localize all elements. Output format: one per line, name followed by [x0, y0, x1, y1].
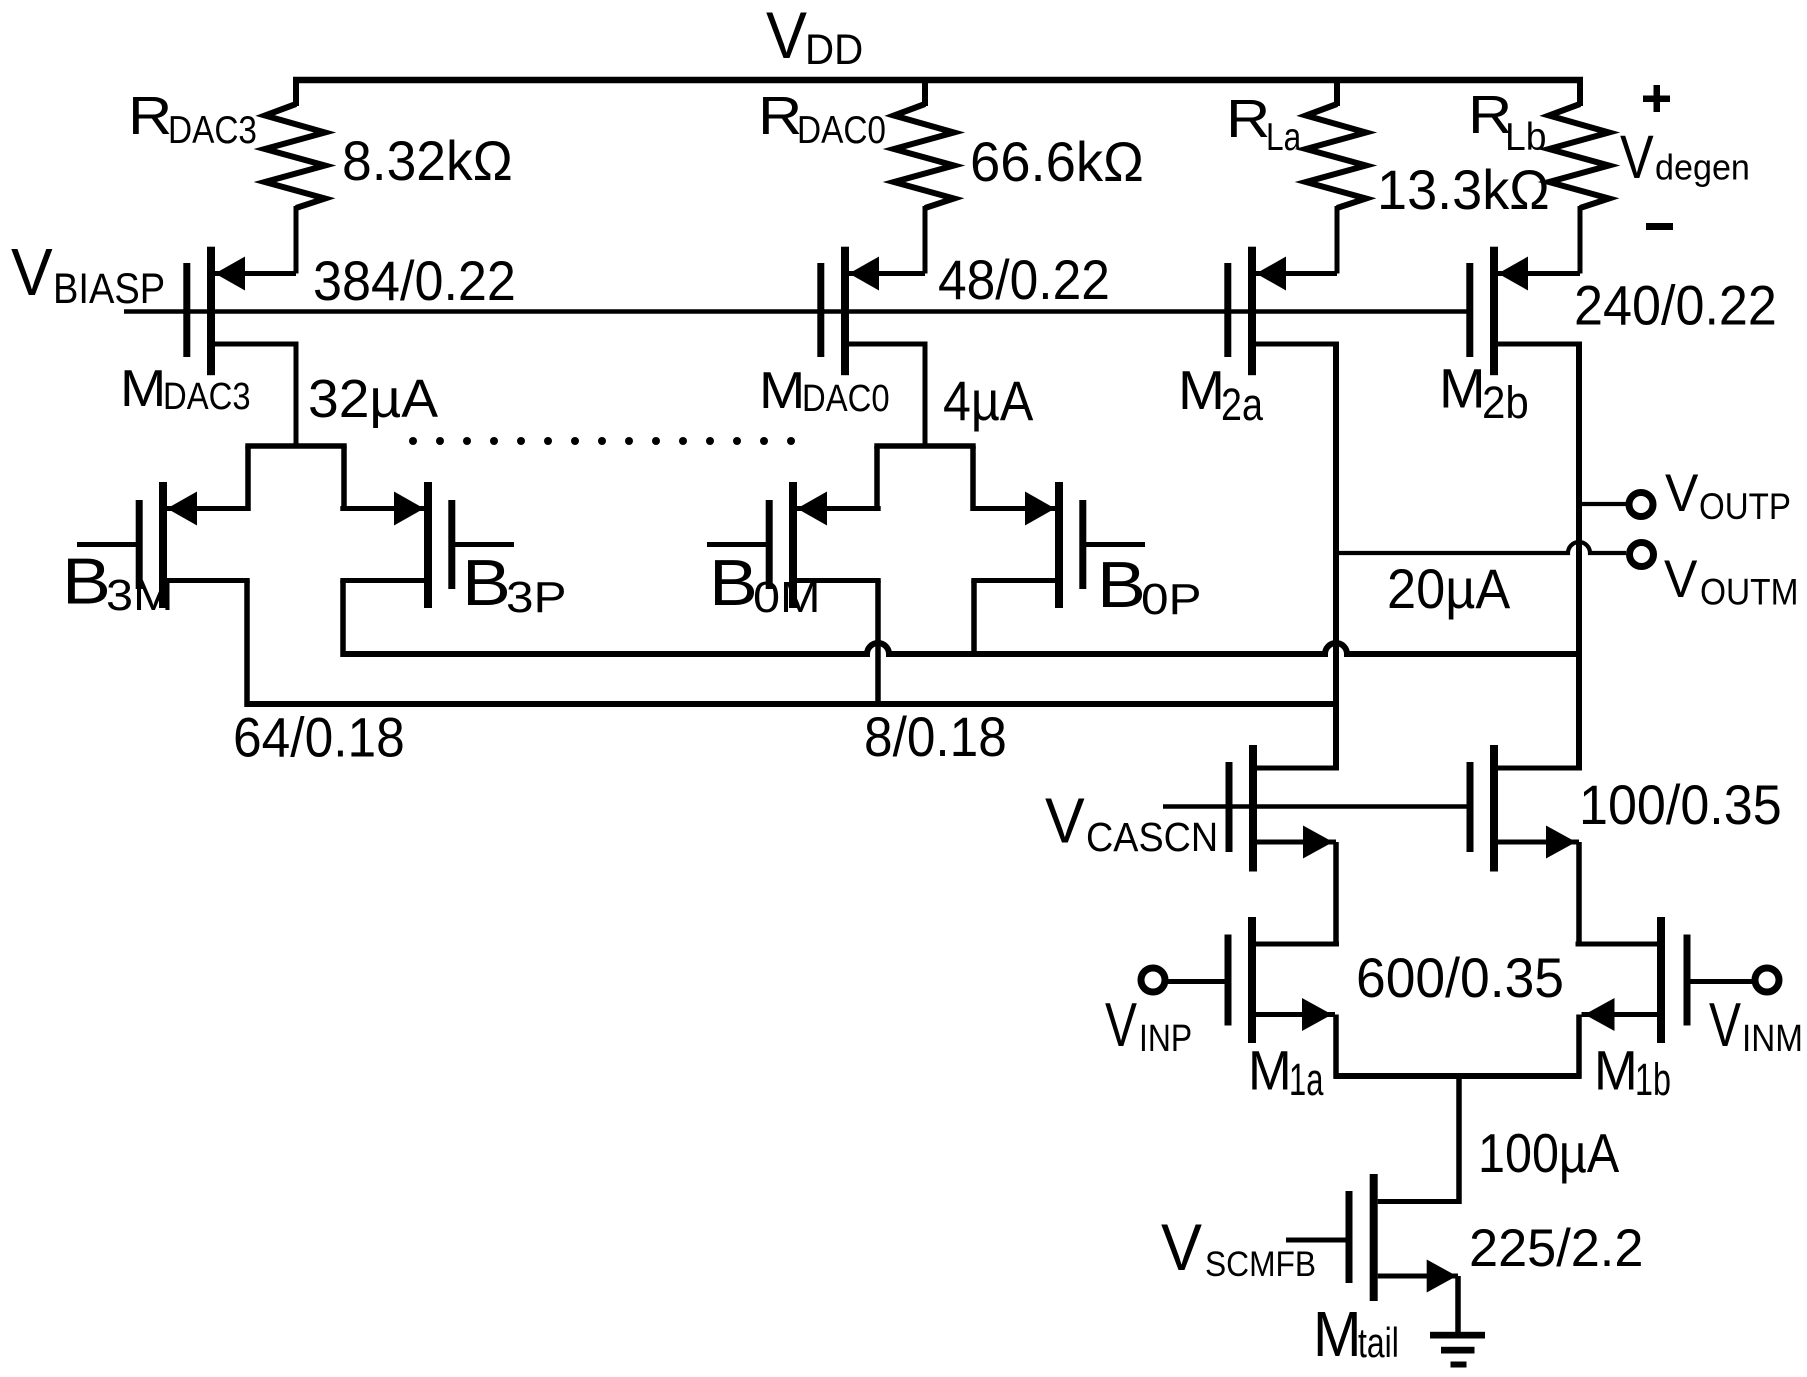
wire M1b source to tail bus [1576, 1015, 1582, 1079]
svg-text:4µA: 4µA [943, 369, 1034, 432]
svg-text:32µA: 32µA [308, 369, 438, 429]
terminal VINP [1141, 968, 1165, 992]
svg-text:La: La [1266, 116, 1301, 159]
transistor Mtail size 225/2.2 [1469, 1219, 1643, 1278]
net VCASCN label [1045, 785, 1218, 861]
svg-text:V: V [1665, 464, 1699, 523]
svg-text:384/0.22: 384/0.22 [313, 249, 516, 312]
svg-text:R: R [1226, 89, 1270, 149]
transistor M2a label [1178, 359, 1264, 430]
svg-text:240/0.22: 240/0.22 [1574, 274, 1777, 337]
transistor B3M label [62, 545, 174, 621]
svg-text:V: V [1709, 991, 1741, 1060]
transistor B0M label [709, 546, 821, 622]
svg-text:64/0.18: 64/0.18 [233, 706, 405, 769]
node VDD supply rail [293, 77, 1583, 84]
current label 32uA [308, 369, 438, 429]
transistor Mtail label [1313, 1298, 1399, 1370]
ground [1430, 1332, 1485, 1368]
wire MDAC3 drain to switch pair 3 node [245, 344, 346, 511]
resistor RLa label [1226, 89, 1301, 159]
terminal VOUTP [1629, 493, 1653, 517]
cascode size 100/0.35 [1579, 773, 1782, 836]
svg-text:V: V [1161, 1210, 1202, 1284]
svg-text:V: V [1664, 550, 1698, 609]
transistor M1a label [1248, 1038, 1324, 1105]
svg-text:OUTM: OUTM [1700, 572, 1799, 613]
node Vdegen plus sign [1643, 96, 1670, 103]
transistor MDAC0 label [759, 362, 890, 420]
transistor M1b label [1594, 1038, 1671, 1105]
wire tail bus [1334, 1073, 1582, 1079]
transistor cascode right (NMOS) [1467, 745, 1583, 872]
node VOUTP label [1665, 464, 1791, 527]
transistor cascode left (NMOS) [1226, 745, 1340, 872]
terminal VINM [1755, 968, 1779, 992]
transistor M2b label [1439, 357, 1529, 429]
svg-text:2b: 2b [1482, 377, 1529, 428]
resistor RDAC0 value 66.6k [970, 130, 1144, 193]
resistor RDAC0 label [758, 86, 886, 152]
svg-text:48/0.22: 48/0.22 [938, 248, 1110, 311]
wire cascode right source to M1b drain [1576, 842, 1582, 947]
net VCASCN gate rail [1163, 804, 1467, 809]
wire M1a source to tail bus [1333, 1015, 1339, 1079]
svg-text:V: V [766, 0, 807, 72]
transistor B0P (PMOS switch) [971, 482, 1145, 608]
transistor B3P (PMOS switch) [340, 482, 514, 608]
svg-text:V: V [1620, 123, 1654, 191]
transistor MDAC3 size 384/0.22 [313, 249, 516, 312]
svg-text:1a: 1a [1289, 1054, 1324, 1105]
svg-text:B: B [62, 545, 111, 618]
node VINM label [1709, 991, 1803, 1060]
svg-text:13.3kΩ: 13.3kΩ [1377, 158, 1550, 221]
wire VOUTP tap [1579, 502, 1626, 506]
net VSCMFB label [1161, 1210, 1316, 1284]
resistor RLa [1306, 77, 1366, 274]
current label 100uA [1478, 1122, 1619, 1184]
current label 4uA [943, 369, 1034, 432]
node VINP label [1105, 991, 1192, 1060]
wire M1b gate to VINM [1691, 979, 1753, 984]
input pair size 600/0.35 [1356, 946, 1564, 1009]
svg-text:3P: 3P [506, 573, 567, 622]
wire VOUTM tap with hop over M2b column [1336, 542, 1626, 553]
svg-text:DAC0: DAC0 [802, 378, 890, 420]
switch pair 3 size 64/0.18 [233, 706, 405, 769]
svg-text:0P: 0P [1141, 575, 1202, 624]
svg-text:R: R [128, 86, 172, 146]
transistor B3P label [462, 546, 567, 622]
svg-text:3M: 3M [106, 571, 174, 620]
svg-text:Lb: Lb [1505, 116, 1547, 159]
svg-text:225/2.2: 225/2.2 [1469, 1219, 1643, 1278]
wire M2b drain column [1576, 344, 1582, 771]
wire B3P drain to upper bus [340, 581, 346, 658]
svg-text:OUTP: OUTP [1699, 486, 1791, 527]
svg-text:M: M [1178, 359, 1225, 421]
svg-text:tail: tail [1358, 1319, 1399, 1366]
resistor RDAC3 [265, 77, 325, 274]
node VDD label [766, 0, 863, 74]
terminal VOUTM [1630, 543, 1654, 567]
wire M2a drain column [1333, 344, 1339, 771]
svg-text:M: M [1248, 1038, 1292, 1101]
svg-text:INP: INP [1139, 1018, 1192, 1060]
svg-text:SCMFB: SCMFB [1205, 1245, 1316, 1284]
svg-text:CASCN: CASCN [1086, 814, 1218, 860]
svg-text:R: R [758, 86, 802, 146]
svg-text:M: M [1313, 1298, 1362, 1370]
resistor RLa RLb value 13.3k [1377, 158, 1550, 221]
svg-text:8/0.18: 8/0.18 [864, 705, 1007, 768]
switch pair 0 size 8/0.18 [864, 705, 1007, 768]
transistor B3M (PMOS switch) [77, 482, 250, 608]
resistor RLb [1549, 77, 1609, 274]
transistor MDAC3 (PMOS DAC slice MSB) [183, 247, 298, 376]
node Vdegen label [1620, 123, 1750, 191]
resistor RDAC0 [894, 77, 954, 274]
svg-text:0M: 0M [753, 573, 821, 622]
svg-text:8.32kΩ: 8.32kΩ [342, 129, 513, 192]
transistor M1a (NMOS input) [1225, 917, 1340, 1043]
svg-text:M: M [120, 360, 166, 418]
wire tail node down to Mtail drain [1456, 1076, 1462, 1204]
svg-text:1b: 1b [1635, 1054, 1671, 1105]
wire MDAC0 drain to switch pair 0 node [874, 344, 975, 511]
node Vdegen minus sign [1646, 223, 1673, 230]
current label 20uA [1387, 557, 1511, 620]
transistor MDAC0 (PMOS DAC slice LSB) [817, 247, 927, 376]
resistor RDAC3 label [128, 86, 257, 152]
svg-text:V: V [11, 235, 53, 310]
svg-text:V: V [1105, 991, 1137, 1060]
svg-text:DAC0: DAC0 [797, 109, 886, 152]
transistor M2b size 240/0.22 [1574, 274, 1777, 337]
wire lower drain bus [245, 701, 1340, 707]
transistor M2b (PMOS load) [1466, 247, 1582, 376]
svg-text:B: B [462, 546, 511, 619]
wire B3M drain to lower bus [244, 581, 250, 708]
svg-text:100/0.35: 100/0.35 [1579, 773, 1782, 836]
svg-text:M: M [1439, 357, 1486, 420]
transistor B0M (PMOS switch) [707, 482, 881, 608]
resistor RLb label [1468, 85, 1547, 159]
transistor MDAC0 size 48/0.22 [938, 248, 1110, 311]
transistor B0P label [1097, 548, 1202, 624]
net VBIASP gate rail [124, 309, 1467, 314]
svg-text:M: M [1594, 1038, 1638, 1101]
svg-text:M: M [759, 362, 805, 420]
wire VINP to M1a gate [1168, 979, 1225, 984]
node VOUTM label [1664, 550, 1799, 613]
svg-text:B: B [1097, 548, 1146, 621]
svg-text:DAC3: DAC3 [168, 109, 257, 152]
svg-text:100µA: 100µA [1478, 1122, 1619, 1184]
wire B0M drain to lower bus [875, 581, 881, 708]
svg-text:DD: DD [805, 26, 863, 74]
svg-text:B: B [709, 546, 758, 619]
svg-text:BIASP: BIASP [53, 265, 165, 313]
svg-text:degen: degen [1655, 147, 1750, 188]
transistor MDAC3 label [120, 360, 251, 418]
transistor Mtail (NMOS tail source) [1286, 1174, 1462, 1334]
net VBIASP label [11, 235, 165, 313]
svg-text:DAC3: DAC3 [163, 376, 251, 418]
dotted continuation line [409, 437, 795, 445]
transistor M2a (PMOS load) [1224, 247, 1339, 376]
svg-text:20µA: 20µA [1387, 557, 1511, 620]
svg-text:INM: INM [1742, 1018, 1803, 1060]
svg-text:66.6kΩ: 66.6kΩ [970, 130, 1144, 193]
transistor M1b (NMOS input, mirrored) [1576, 917, 1691, 1043]
wire B0P drain to upper bus [971, 581, 977, 658]
svg-text:600/0.35: 600/0.35 [1356, 946, 1564, 1009]
resistor RDAC3 value 8.32k [342, 129, 513, 192]
svg-text:V: V [1045, 785, 1085, 857]
wire cascode left source to M1a drain [1333, 842, 1339, 947]
svg-text:2a: 2a [1221, 379, 1264, 430]
wire upper drain bus with crossover hops [343, 643, 1582, 654]
